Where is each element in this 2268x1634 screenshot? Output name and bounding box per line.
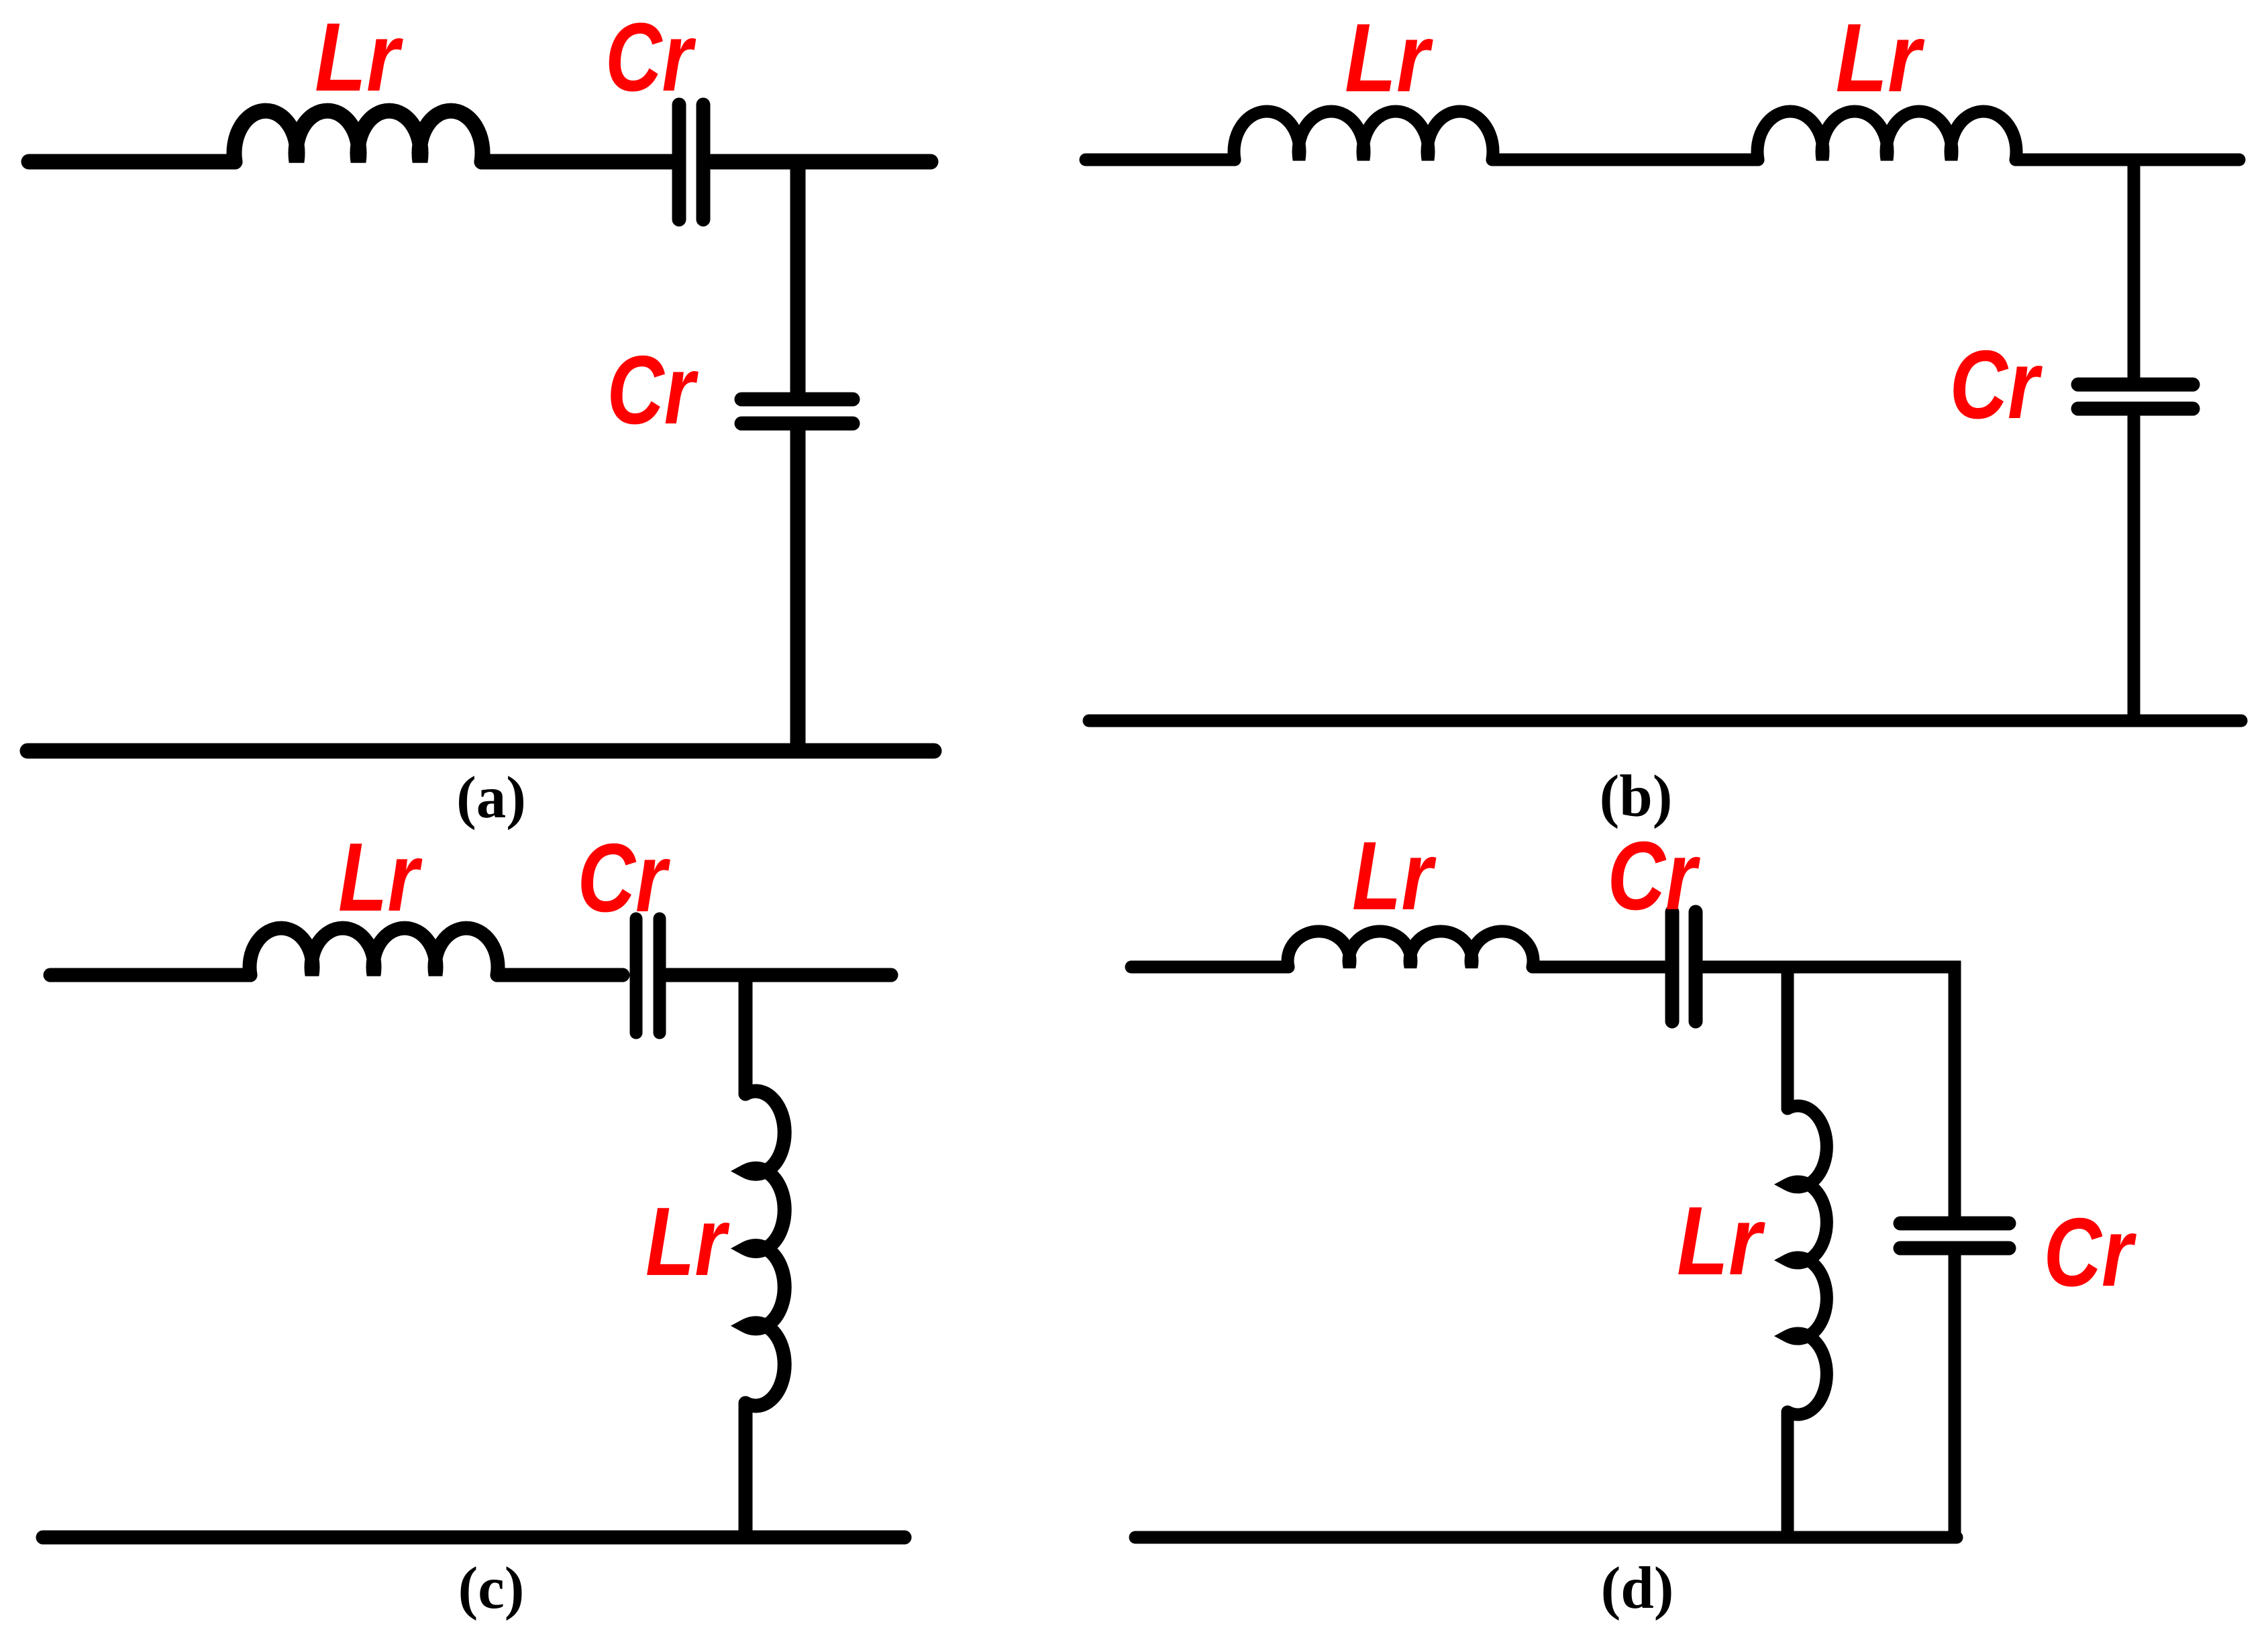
wire: (b) vertical drop from node to shunt Cr: [2128, 161, 2141, 376]
svg-text:(b): (b): [1600, 764, 1673, 829]
wire: (c) top-right wire after Cr: [667, 968, 891, 982]
wire: (b) between the two inductors: [1492, 154, 1758, 166]
svg-text:Cr: Cr: [1608, 821, 1701, 930]
wire: (a) vertical from shunt Cr to bottom rail: [790, 429, 806, 750]
wire: (d) vertical from shunt Lr to bottom rail: [1782, 1412, 1794, 1536]
svg-text:Lr: Lr: [1836, 3, 1926, 112]
inductor Lr (d series): [1288, 931, 1533, 967]
wire: (a) vertical drop from node to shunt Cr: [790, 163, 806, 393]
wire: (a) top-right wire after Cr: [711, 154, 931, 170]
wire: (b) vertical from shunt Cr to bottom rail: [2128, 417, 2141, 719]
svg-text:Cr: Cr: [578, 823, 671, 932]
capacitor Cr (d shunt) plates: [1900, 1217, 2009, 1231]
capacitor Cr (c series) plates: [630, 919, 643, 1033]
svg-text:Cr: Cr: [605, 3, 697, 111]
inductor Lr (c shunt, vertical): [745, 1091, 784, 1406]
wire: (c) top-left input wire: [50, 968, 250, 982]
inductor Lr (b first): [1234, 111, 1493, 160]
wire: (b) top-left input wire: [1086, 154, 1235, 166]
capacitor Cr (b shunt) plates: [2078, 378, 2193, 392]
svg-text:(a): (a): [456, 765, 526, 831]
svg-text:Cr: Cr: [2044, 1198, 2137, 1307]
wire: (d) top wire after Cr, corner down to shunt Cr: [1702, 967, 1955, 1217]
inductor Lr (c series): [250, 928, 498, 975]
svg-text:Lr: Lr: [1677, 1186, 1766, 1295]
svg-text:(d): (d): [1601, 1555, 1674, 1621]
wire: (a) bottom rail: [28, 744, 934, 759]
capacitor Cr (a shunt) plates: [741, 393, 853, 407]
wire: (b) top-right wire to edge: [2016, 154, 2239, 166]
svg-text:Lr: Lr: [1352, 821, 1437, 930]
capacitor Cr (d series) plates: [1665, 912, 1680, 1021]
wire: (d) vertical from shunt Cr down to bottom rail: [1949, 1255, 1961, 1537]
inductor Lr (b second): [1757, 111, 2016, 160]
svg-text:Lr: Lr: [646, 1187, 730, 1296]
svg-text:Lr: Lr: [315, 3, 404, 111]
wire: (a) between Lr and Cr: [482, 154, 672, 170]
svg-text:Cr: Cr: [1950, 330, 2043, 439]
wire: (c) between Lr and Cr: [497, 968, 623, 982]
wire: (d) vertical drop from node to shunt Lr: [1782, 968, 1794, 1109]
wire: (b) bottom rail: [1089, 715, 2241, 727]
wire: (a) top-left input wire: [29, 154, 235, 170]
svg-text:Lr: Lr: [1345, 3, 1434, 112]
wire: (d) bottom rail: [1135, 1531, 1957, 1544]
inductor Lr (d shunt, vertical): [1788, 1106, 1826, 1415]
svg-text:(c): (c): [458, 1555, 525, 1621]
svg-text:Cr: Cr: [607, 336, 699, 444]
wire: (d) top-left input wire: [1131, 961, 1288, 974]
wire: (d) between Lr and Cr: [1533, 961, 1665, 974]
wire: (c) vertical drop from node to shunt Lr: [739, 976, 753, 1094]
svg-text:Lr: Lr: [338, 823, 423, 931]
wire: (c) bottom rail: [43, 1531, 905, 1545]
inductor Lr (a series): [234, 111, 482, 162]
wire: (c) vertical from shunt Lr to bottom rail: [739, 1403, 753, 1536]
capacitor Cr (a series) plates: [672, 105, 686, 219]
